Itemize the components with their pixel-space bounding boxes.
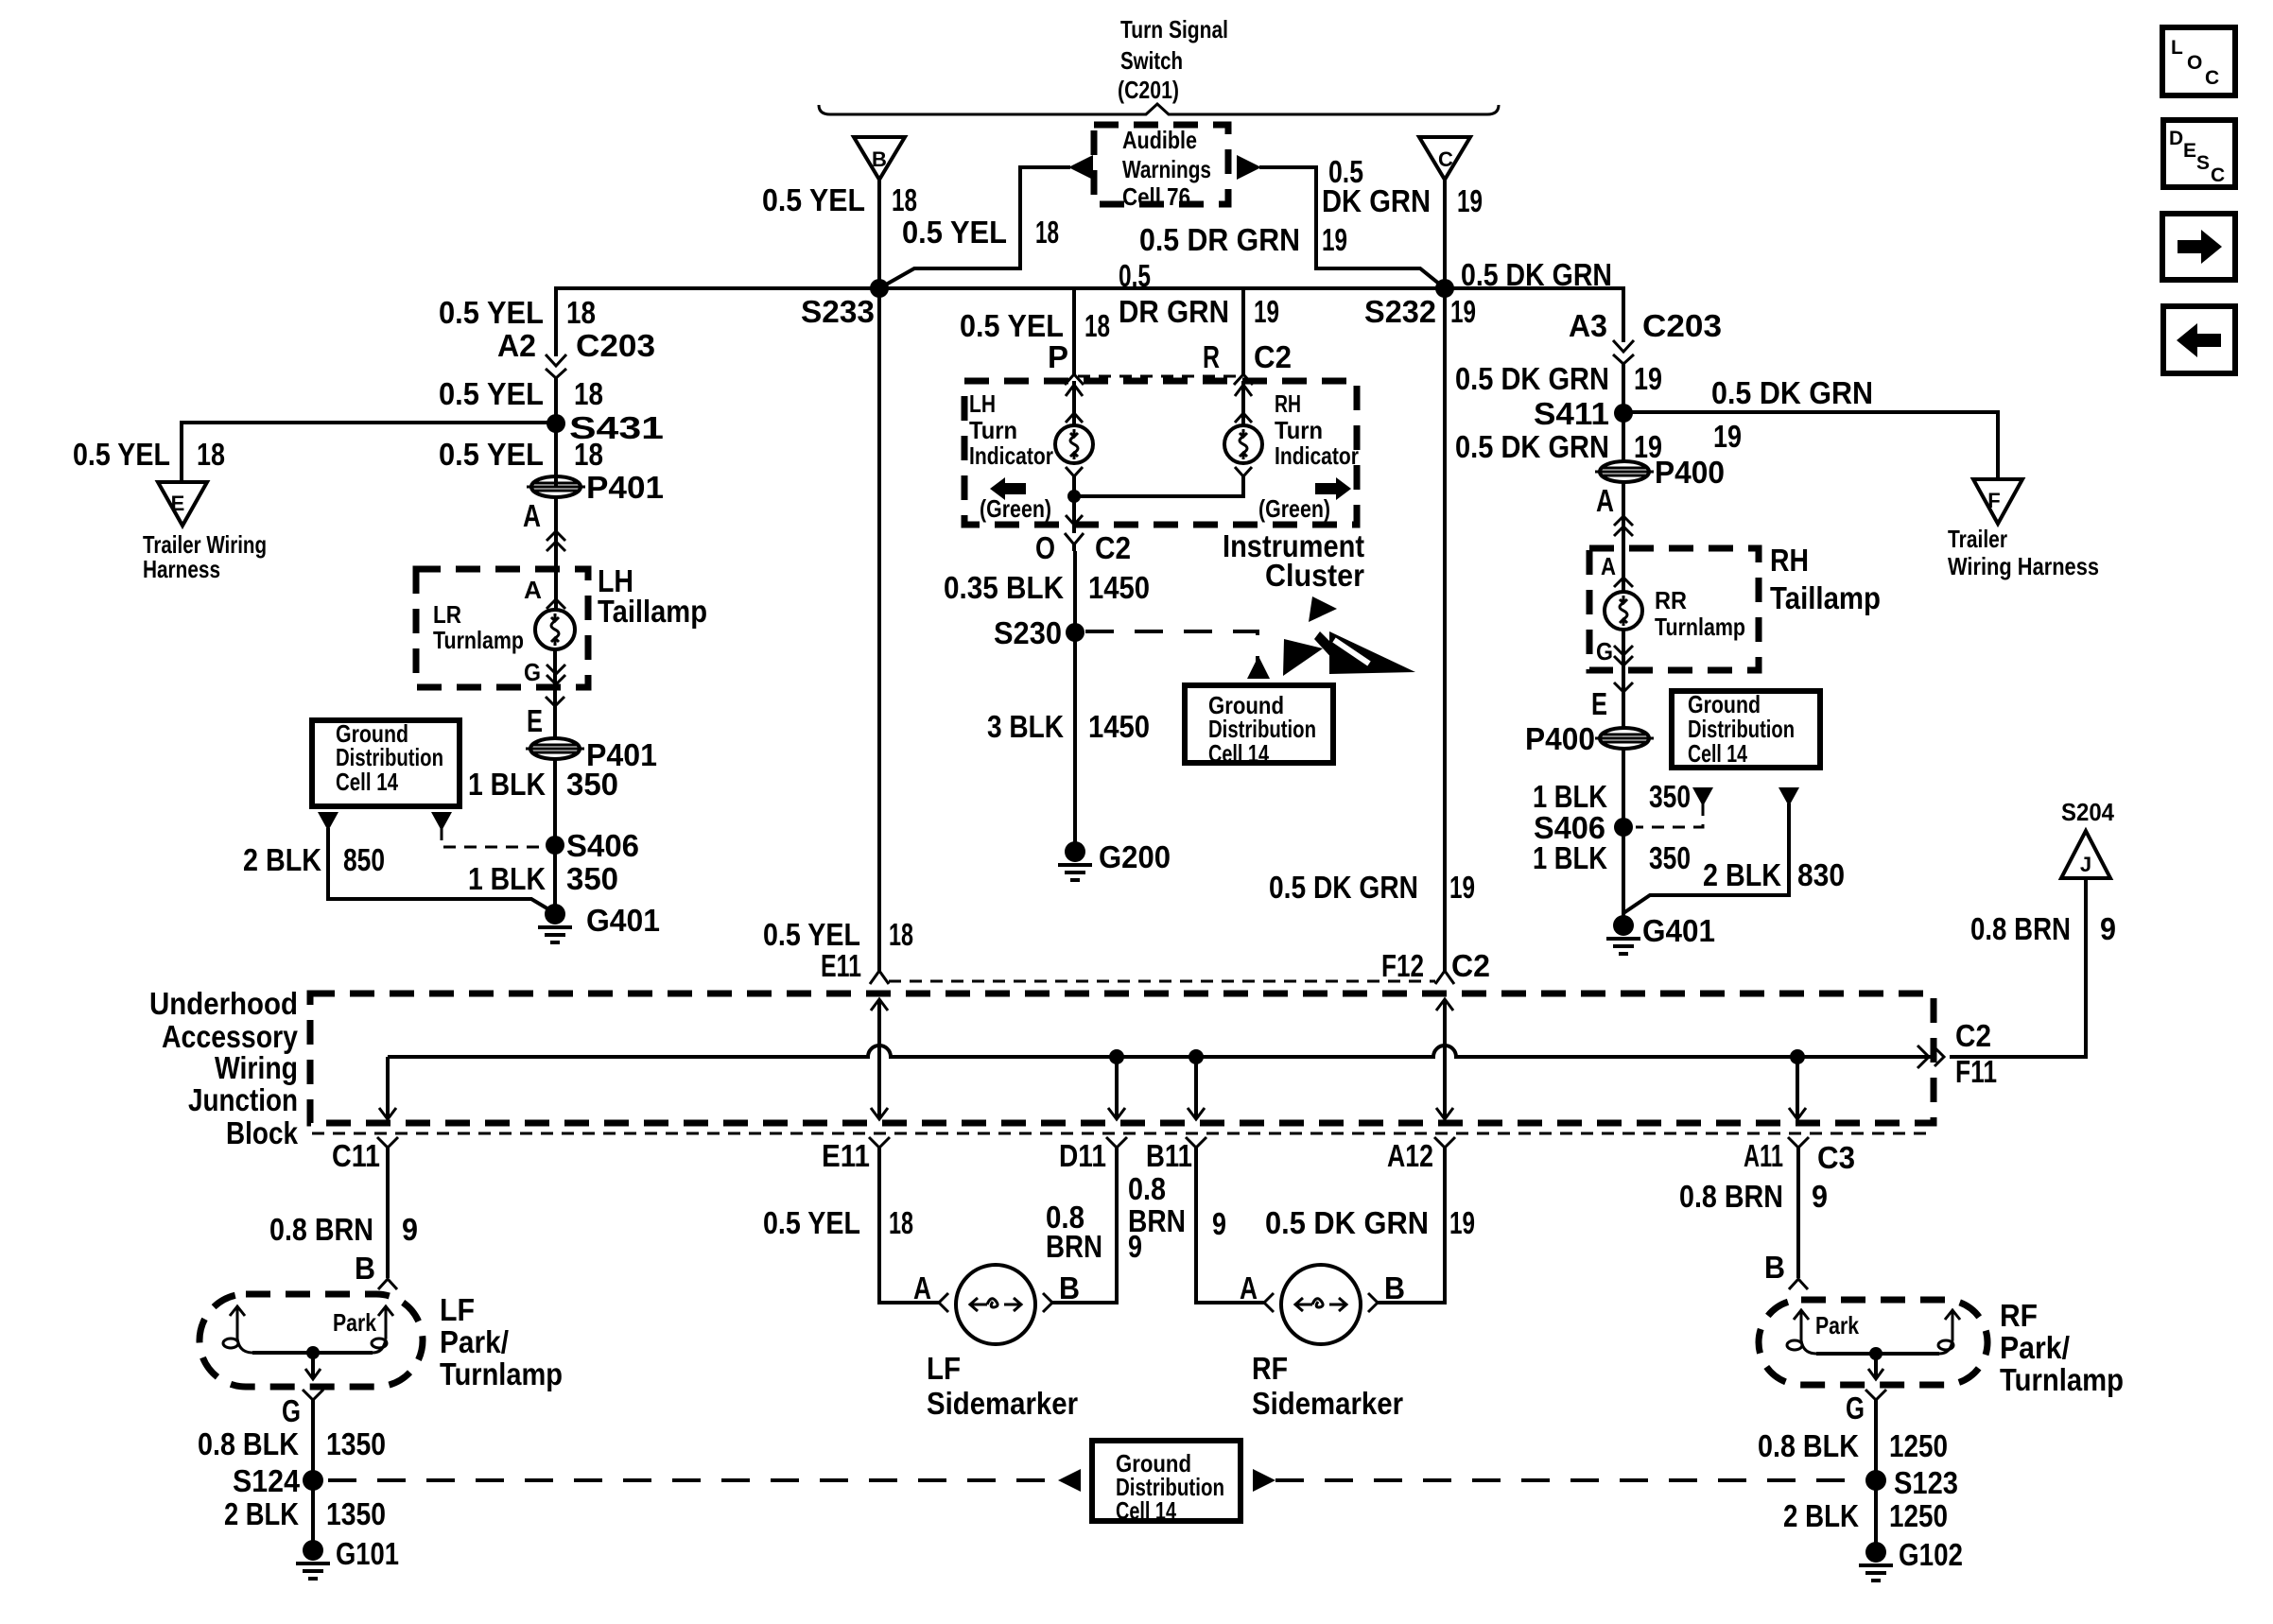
page connector triangle F (1973, 479, 2022, 524)
svg-text:B: B (1059, 1270, 1080, 1305)
svg-text:G: G (1846, 1391, 1865, 1425)
arrowhead into audible box (left) (1068, 155, 1093, 180)
svg-text:P401: P401 (586, 470, 664, 505)
svg-text:Turnlamp: Turnlamp (440, 1356, 563, 1391)
svg-text:3 BLK: 3 BLK (987, 709, 1064, 744)
svg-text:18: 18 (889, 1205, 913, 1240)
svg-text:9: 9 (1812, 1179, 1828, 1214)
wire audible warnings to S232 (1259, 167, 1445, 288)
pass-through A12 double arrow (1436, 999, 1453, 1119)
underhood junction block label (149, 986, 299, 1150)
svg-text:C: C (2211, 164, 2225, 186)
svg-text:0.5 YEL: 0.5 YEL (439, 376, 544, 411)
wire P400 lower to G401 (1622, 748, 1625, 925)
svg-text:Sidemarker: Sidemarker (1252, 1386, 1403, 1421)
svg-text:F11: F11 (1955, 1054, 1997, 1089)
svg-text:A: A (524, 576, 542, 604)
svg-text:0.5 YEL: 0.5 YEL (762, 182, 865, 217)
svg-text:0.8 BLK: 0.8 BLK (198, 1426, 299, 1461)
connector line E11-F12 (fine dashed) (889, 980, 1435, 983)
label 0.5 DR GRN 19 (audible branch right) (1139, 222, 1347, 257)
svg-text:Turnlamp: Turnlamp (1655, 613, 1745, 641)
trailer wiring harness label (left) (143, 530, 267, 583)
pass-through connector P401 (upper) (527, 470, 664, 505)
pin P (1048, 339, 1084, 385)
svg-text:C2: C2 (1254, 339, 1292, 374)
svg-text:C203: C203 (576, 328, 655, 363)
label 0.5 DK GRN 19 (F12 wire) (1269, 870, 1475, 905)
svg-text:0.5 DK GRN: 0.5 DK GRN (1711, 375, 1873, 410)
svg-text:Cell 76: Cell 76 (1122, 182, 1190, 211)
splice S233 (801, 279, 889, 329)
label 0.5 YEL 18 (above C203 left) (439, 295, 596, 330)
wire junction to cluster output (1066, 496, 1083, 533)
label 0.5 YEL 18 (B wire) (762, 182, 917, 217)
svg-text:Turn Signal: Turn Signal (1120, 15, 1228, 43)
wire LH taillamp to P401 lower (553, 649, 557, 740)
label 0.8 BRN 9 (C11 wire) (269, 1212, 418, 1247)
svg-text:(C201): (C201) (1118, 76, 1179, 104)
connector chevron below RH taillamp (1614, 682, 1633, 692)
svg-text:0.8 BRN: 0.8 BRN (1679, 1179, 1783, 1214)
label 2 BLK 850 (243, 842, 385, 877)
pin A (LF sidemarker) (913, 1270, 948, 1312)
svg-text:Cell 14: Cell 14 (1116, 1496, 1176, 1525)
svg-text:0.5 DK GRN: 0.5 DK GRN (1265, 1205, 1429, 1240)
svg-text:0.5 DK GRN: 0.5 DK GRN (1455, 361, 1609, 396)
ground distribution box (left) (312, 719, 460, 806)
svg-text:S232: S232 (1364, 294, 1436, 329)
svg-text:BRN: BRN (1046, 1229, 1102, 1264)
svg-text:0.8 BLK: 0.8 BLK (1758, 1428, 1859, 1463)
svg-text:Block: Block (226, 1115, 299, 1150)
label 0.35 BLK 1450 (944, 570, 1150, 605)
chevron E11 top (870, 971, 889, 984)
wire RF park to G102 (1874, 1400, 1878, 1552)
svg-text:S123: S123 (1894, 1465, 1958, 1500)
label 0.5 YEL 18 (P wire) (960, 308, 1110, 343)
pin A (inside LH taillamp) (524, 576, 565, 609)
instrument cluster box (964, 381, 1357, 525)
splice S411 (1534, 396, 1633, 431)
main bus wire (556, 288, 1623, 356)
svg-text:D: D (2169, 128, 2183, 149)
svg-text:S411: S411 (1534, 396, 1609, 431)
pin G (inside RH taillamp) (1596, 637, 1633, 665)
LF sidemarker bulb (956, 1265, 1035, 1344)
svg-text:1450: 1450 (1088, 709, 1150, 744)
bus junction dot D11 (1109, 1049, 1124, 1064)
svg-text:18: 18 (889, 917, 913, 952)
label 0.5 YEL 18 (E11 wire) (763, 917, 913, 952)
forward arrow box (2162, 214, 2235, 280)
dashed wire ground distribution to S123 (1275, 1478, 1859, 1482)
LF park turnlamp box (200, 1294, 423, 1387)
instrument cluster label (1223, 528, 1364, 593)
svg-text:Junction: Junction (188, 1082, 298, 1117)
svg-text:F: F (1987, 489, 2000, 512)
svg-text:RF: RF (2000, 1298, 2038, 1333)
svg-text:O: O (1035, 530, 1055, 565)
pin A11 / connector C3 (1744, 1137, 1855, 1175)
ESD warning symbol (1283, 596, 1415, 676)
svg-text:19: 19 (1713, 419, 1742, 454)
pin D11 (1059, 1137, 1127, 1173)
RF park output arrow (1868, 1354, 1883, 1379)
svg-text:0.35 BLK: 0.35 BLK (944, 570, 1064, 605)
LF park bottom rail (252, 1351, 373, 1355)
LF park junction dot (306, 1346, 320, 1359)
svg-text:S230: S230 (994, 615, 1062, 650)
arrowhead into ground distribution (bottom left) (1058, 1469, 1081, 1492)
svg-text:18: 18 (197, 437, 225, 472)
ground G401 (left) (538, 903, 660, 942)
wire C to S232 (1443, 180, 1447, 288)
svg-text:J: J (2080, 853, 2091, 876)
svg-text:Cell 14: Cell 14 (1688, 739, 1747, 768)
svg-text:DR GRN: DR GRN (1119, 294, 1229, 329)
svg-text:18: 18 (566, 295, 596, 330)
svg-text:2 BLK: 2 BLK (243, 842, 321, 877)
label 0.5 YEL 18 (audible branch) (902, 215, 1059, 250)
wire S232 to junction block F12 (1443, 288, 1447, 972)
svg-text:Indicator: Indicator (969, 441, 1053, 470)
DESC box (2163, 120, 2235, 187)
svg-text:19: 19 (1254, 294, 1279, 329)
svg-text:1350: 1350 (326, 1496, 386, 1531)
svg-text:0.5 YEL: 0.5 YEL (763, 917, 860, 952)
RF sidemarker bulb (1281, 1265, 1361, 1344)
svg-text:0.5 YEL: 0.5 YEL (763, 1205, 860, 1240)
wire B to S233 (877, 180, 881, 288)
ground G101 (296, 1536, 399, 1579)
LH turn indicator lamp (1055, 425, 1093, 463)
svg-text:Park: Park (1815, 1311, 1859, 1339)
arrowhead from ground box (left-1) (318, 812, 338, 831)
svg-text:Wiring: Wiring (215, 1050, 298, 1085)
LR turnlamp bulb (535, 610, 575, 649)
label 0.5 DK GRN 19 (A12 wire) (1265, 1205, 1475, 1240)
pin R / connector C2 (1203, 339, 1292, 385)
svg-text:P: P (1048, 339, 1068, 374)
pin F12 / connector C2 (1381, 948, 1490, 983)
arrowhead from ground box (left-2) (431, 812, 452, 831)
bus drop to B11 with arrow (1188, 1057, 1205, 1119)
svg-text:0.5 DK GRN: 0.5 DK GRN (1269, 870, 1418, 905)
RR turnlamp bulb (1605, 592, 1642, 630)
LF park output arrow (305, 1353, 321, 1379)
wire S411 to trailer harness F (1623, 412, 1998, 479)
svg-text:2 BLK: 2 BLK (1703, 857, 1781, 892)
wire P drop (1072, 288, 1076, 374)
svg-text:0.5 YEL: 0.5 YEL (960, 308, 1064, 343)
LR turnlamp label (433, 600, 524, 654)
wire E11 to LF sidemarker (879, 1148, 939, 1303)
LF park filament left (223, 1306, 252, 1353)
wire 2 BLK 850 to G401 (328, 828, 555, 913)
svg-text:0.5 DK GRN: 0.5 DK GRN (1455, 429, 1609, 464)
svg-text:DK GRN: DK GRN (1322, 183, 1431, 218)
svg-text:P400: P400 (1525, 721, 1595, 756)
svg-text:350: 350 (566, 767, 618, 802)
LF sidemarker label (927, 1351, 1078, 1421)
svg-text:Turnlamp: Turnlamp (2000, 1362, 2124, 1397)
arrowhead from ground box (right-1) (1692, 787, 1713, 806)
svg-text:Audible: Audible (1122, 126, 1197, 154)
label 0.8 BLK 1350 (198, 1426, 386, 1461)
svg-text:Park: Park (333, 1308, 376, 1337)
LH turn indicator label (969, 389, 1053, 470)
svg-text:850: 850 (343, 842, 385, 877)
dashed wire to S406 (right) (1636, 803, 1703, 827)
RR turnlamp label (1655, 586, 1745, 641)
svg-text:C2: C2 (1095, 530, 1131, 565)
svg-text:F12: F12 (1381, 948, 1424, 983)
splice S406 (right) (1534, 810, 1633, 845)
svg-text:E: E (171, 492, 185, 515)
svg-text:18: 18 (1035, 215, 1059, 250)
bus exit chevrons C2 F11 (1917, 1018, 1997, 1089)
svg-text:B11: B11 (1146, 1138, 1192, 1173)
connector C203 pin A2 (497, 328, 655, 378)
LOC box (2162, 27, 2235, 95)
label 1 BLK 350 (below S406 right) (1533, 840, 1691, 875)
svg-text:E11: E11 (822, 1138, 870, 1173)
svg-text:S204: S204 (2061, 798, 2114, 826)
wire RF sidemarker to A12 (1378, 1148, 1445, 1303)
junction block bottom connector line (312, 1132, 1934, 1135)
svg-text:19: 19 (1450, 294, 1476, 329)
label 0.5 YEL 18 (trailer branch) (73, 437, 225, 472)
svg-text:C203: C203 (1642, 308, 1722, 343)
svg-text:RH: RH (1275, 389, 1301, 418)
svg-text:Turn: Turn (1275, 416, 1323, 444)
wire cluster to G200 (1073, 551, 1077, 852)
connector C203 pin A3 (1569, 308, 1722, 364)
svg-text:R: R (1203, 339, 1220, 374)
svg-text:LH: LH (969, 389, 996, 418)
pin B11 (1146, 1137, 1206, 1173)
label 0.8 BRN 9 (B11 wire) (1128, 1171, 1226, 1241)
label 2 BLK 1250 (1783, 1498, 1948, 1533)
wire 2 BLK 830 to G401 (1623, 803, 1789, 913)
svg-text:G: G (524, 658, 541, 686)
svg-text:1 BLK: 1 BLK (1533, 779, 1607, 814)
svg-text:0.8: 0.8 (1128, 1171, 1166, 1206)
svg-text:G200: G200 (1099, 839, 1171, 874)
page connector triangle E (158, 482, 207, 526)
svg-text:LF: LF (440, 1292, 475, 1327)
wire junction to RH indicator (1074, 476, 1243, 496)
LF park filament right (372, 1306, 393, 1353)
pin A12 (1387, 1137, 1455, 1173)
svg-text:9: 9 (2100, 911, 2116, 946)
RH taillamp box (1589, 548, 1759, 670)
dashed wire S230 to ground distribution (1085, 631, 1258, 662)
svg-text:18: 18 (574, 376, 603, 411)
connector chevron below LH taillamp (546, 697, 564, 706)
pin G (RF) (1846, 1390, 1886, 1425)
svg-text:19: 19 (1457, 183, 1483, 218)
svg-text:B: B (1384, 1270, 1405, 1305)
wire LF sidemarker to D11 (1052, 1148, 1117, 1303)
label 1 BLK 350 (above S406 right) (1533, 779, 1691, 814)
pin A (above RH taillamp) (1596, 483, 1633, 536)
label 0.5 DR GRN 19 (R wire) (1119, 258, 1279, 329)
ground distribution box (bottom) (1092, 1441, 1241, 1525)
wire LF park to G101 (311, 1400, 315, 1550)
svg-text:0.5 DR GRN: 0.5 DR GRN (1139, 222, 1300, 257)
page connector triangle B (854, 137, 905, 180)
svg-text:RH: RH (1770, 543, 1809, 578)
pin A (RF sidemarker) (1240, 1270, 1274, 1312)
svg-text:1250: 1250 (1889, 1428, 1948, 1463)
label 0.5 DK GRN 19 (above S411) (1455, 361, 1662, 396)
svg-text:Underhood: Underhood (149, 986, 298, 1021)
svg-text:2 BLK: 2 BLK (224, 1496, 299, 1531)
svg-text:Turn: Turn (969, 416, 1017, 444)
svg-text:BRN: BRN (1128, 1203, 1186, 1238)
svg-text:A: A (1596, 483, 1614, 518)
svg-text:G101: G101 (336, 1536, 399, 1571)
svg-text:LF: LF (927, 1351, 961, 1386)
svg-text:18: 18 (892, 182, 917, 217)
svg-text:0.8 BRN: 0.8 BRN (1970, 911, 2071, 946)
svg-text:1 BLK: 1 BLK (468, 767, 546, 802)
svg-text:LR: LR (433, 600, 461, 629)
svg-text:Harness: Harness (143, 555, 220, 583)
pin B (RF sidemarker) (1368, 1270, 1405, 1312)
pin B (LF sidemarker) (1043, 1270, 1080, 1312)
bus drop to A11 with arrow (1789, 1057, 1806, 1119)
svg-text:S: S (2196, 152, 2210, 174)
RF park turnlamp box (1759, 1300, 1987, 1385)
splice S232 (1364, 279, 1454, 329)
svg-text:18: 18 (574, 437, 603, 472)
label 0.8 BLK 1250 (1758, 1428, 1948, 1463)
svg-text:0.8 BRN: 0.8 BRN (269, 1212, 373, 1247)
svg-text:C: C (2205, 67, 2219, 89)
right green arrow (1258, 477, 1351, 523)
wire LH indicator to junction (1066, 467, 1083, 496)
svg-text:1450: 1450 (1088, 570, 1150, 605)
underhood accessory wiring junction block box (310, 993, 1934, 1123)
trailer wiring harness label (right) (1948, 525, 2099, 580)
wire LH indicator input (1066, 381, 1083, 425)
pass-through connector P400 (lower) (1525, 721, 1654, 756)
label 0.5 YEL 18 (above P401) (439, 437, 603, 472)
svg-text:0.5 YEL: 0.5 YEL (439, 437, 544, 472)
pass-through connector P400 (upper) (1595, 455, 1725, 490)
svg-text:E: E (1591, 686, 1607, 721)
svg-text:B: B (872, 147, 887, 171)
label 2 BLK 1350 (224, 1496, 386, 1531)
bus drop to D11 with arrow (1108, 1057, 1125, 1119)
svg-text:L: L (2171, 37, 2183, 59)
pin A (above LH taillamp) (523, 498, 565, 551)
pin A (inside RH taillamp) (1601, 552, 1633, 587)
svg-text:A12: A12 (1387, 1138, 1433, 1173)
label 1 BLK 350 (below S406 left) (468, 861, 618, 896)
svg-text:O: O (2187, 52, 2202, 74)
RF park turnlamp label (2000, 1298, 2124, 1397)
svg-text:A3: A3 (1569, 308, 1607, 343)
pin G (inside LH taillamp) (524, 658, 565, 686)
ground G102 (1859, 1537, 1963, 1581)
svg-text:830: 830 (1797, 857, 1845, 892)
svg-text:C: C (1438, 147, 1453, 171)
svg-text:C11: C11 (332, 1138, 380, 1173)
svg-text:Accessory: Accessory (162, 1019, 299, 1054)
svg-text:0.5 DK GRN: 0.5 DK GRN (1461, 257, 1612, 292)
arrowhead from ground box (right-2) (1778, 787, 1799, 806)
splice S431 (547, 410, 664, 445)
svg-text:B: B (355, 1251, 375, 1286)
svg-text:Taillamp: Taillamp (598, 594, 707, 629)
dashed wire S124 to ground distribution (328, 1478, 1058, 1482)
label 0.8 BRN 9 (A11 wire) (1679, 1179, 1828, 1214)
wire RH indicator input (1235, 381, 1252, 425)
svg-text:S124: S124 (233, 1463, 301, 1498)
svg-text:G401: G401 (586, 903, 660, 938)
wire S233 to audible warnings (879, 167, 1070, 288)
pin B (LF park turnlamp) (355, 1251, 397, 1289)
svg-text:G102: G102 (1899, 1537, 1963, 1572)
pin C11 (332, 1137, 398, 1173)
svg-text:Warnings: Warnings (1122, 155, 1211, 183)
audible warnings box Cell 76 (1094, 125, 1228, 211)
svg-text:G401: G401 (1642, 913, 1715, 948)
svg-text:A11: A11 (1744, 1138, 1783, 1173)
svg-text:A: A (1240, 1270, 1258, 1305)
svg-text:19: 19 (1634, 361, 1662, 396)
splice S123 (1865, 1465, 1958, 1500)
svg-text:2 BLK: 2 BLK (1783, 1498, 1859, 1533)
wire R drop (1241, 288, 1245, 374)
LH taillamp box (416, 569, 588, 687)
pass-through connector P401 (lower) (526, 737, 657, 772)
turn signal switch label (1118, 15, 1228, 104)
svg-text:0.5 YEL: 0.5 YEL (439, 295, 544, 330)
wire RH indicator chevron (1235, 467, 1252, 476)
wire RH taillamp to P400 lower (1622, 630, 1625, 730)
svg-text:0.5 YEL: 0.5 YEL (902, 215, 1007, 250)
svg-text:Sidemarker: Sidemarker (927, 1386, 1078, 1421)
svg-text:A: A (1601, 552, 1616, 580)
ground G401 (right) (1606, 913, 1715, 954)
svg-text:S406: S406 (566, 828, 639, 863)
splice S124 (233, 1463, 323, 1498)
wire P401 to LH taillamp (554, 496, 558, 611)
ground distribution box (center) (1185, 685, 1333, 768)
label 0.5 YEL 18 (LF sidemarker) (763, 1205, 913, 1240)
svg-text:A: A (523, 498, 541, 533)
svg-text:350: 350 (1649, 840, 1691, 875)
svg-text:C3: C3 (1817, 1140, 1855, 1175)
pin G (LF) (282, 1390, 323, 1428)
svg-text:E: E (527, 703, 543, 738)
svg-text:G: G (1596, 637, 1613, 665)
svg-text:S233: S233 (801, 294, 875, 329)
label 0.5 DK GRN 19 (above P400) (1455, 429, 1662, 464)
RH turn indicator label (1275, 389, 1359, 470)
svg-text:E11: E11 (821, 948, 861, 983)
pin E11 (822, 1137, 890, 1173)
svg-text:D11: D11 (1059, 1138, 1106, 1173)
svg-text:Indicator: Indicator (1275, 441, 1359, 470)
connector line P-R (C2 dashed) (1078, 375, 1240, 378)
chevron F12 top (1435, 971, 1454, 984)
